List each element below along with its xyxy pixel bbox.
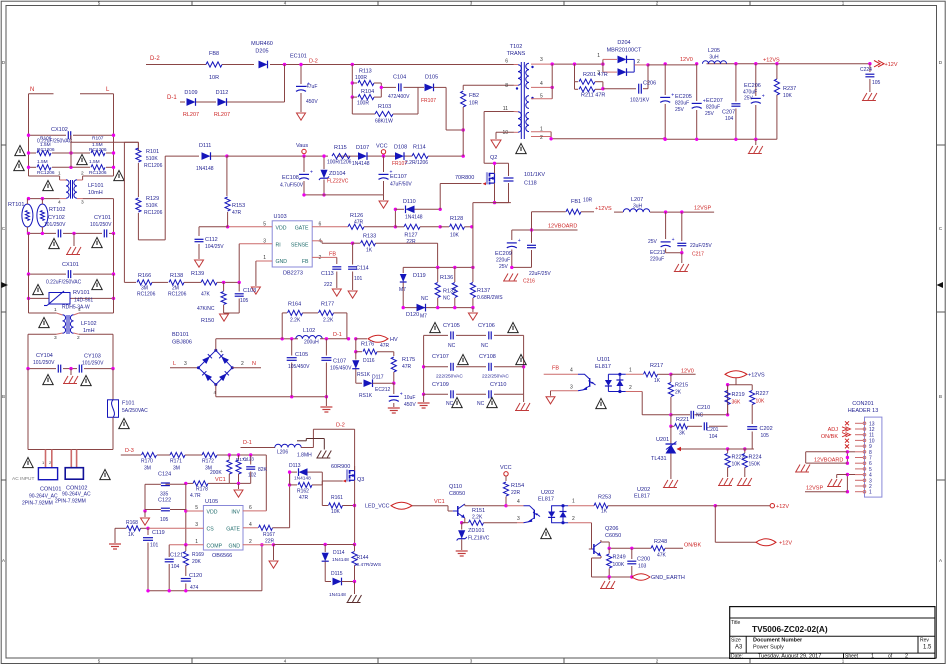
svg-text:ZD104: ZD104 <box>329 171 346 177</box>
svg-text:C201: C201 <box>707 427 719 433</box>
warning triangle CY107 <box>458 354 468 364</box>
wire D-1 diode row <box>180 101 185 103</box>
svg-text:GATE: GATE <box>226 527 240 533</box>
svg-text:222/250VAC: 222/250VAC <box>436 374 463 380</box>
svg-text:C217: C217 <box>692 252 704 258</box>
svg-text:M7: M7 <box>420 314 427 320</box>
svg-text:C224: C224 <box>860 67 872 73</box>
no-connect x pin13 <box>845 421 849 425</box>
svg-text:47K: 47K <box>201 292 211 298</box>
resistor R115 <box>332 154 350 159</box>
wire to D111 anode <box>165 155 199 157</box>
power arrow +12V top <box>874 61 884 67</box>
resistor R126 <box>348 224 364 229</box>
diode D205 MUR460 <box>259 61 268 69</box>
svg-text:102: 102 <box>248 473 257 479</box>
svg-text:12V0: 12V0 <box>681 369 694 375</box>
warning triangle U202 <box>541 528 551 538</box>
warning triangle 9 <box>92 279 102 289</box>
svg-text:3: 3 <box>81 200 84 206</box>
wire vdd column <box>185 483 187 544</box>
svg-text:105: 105 <box>160 517 169 523</box>
svg-text:474: 474 <box>190 585 199 591</box>
wire AC bottom row <box>28 449 113 451</box>
wire L top <box>80 93 114 95</box>
svg-text:100R: 100R <box>355 75 367 81</box>
svg-text:25V: 25V <box>675 107 685 113</box>
zener ZD101 <box>458 530 465 538</box>
wire R150 C103 join <box>224 312 240 314</box>
svg-text:105/450V: 105/450V <box>288 364 310 370</box>
diode D109 <box>187 98 196 106</box>
resistor R138 <box>160 281 168 283</box>
svg-text:R138: R138 <box>170 273 183 279</box>
svg-text:25V: 25V <box>648 239 658 245</box>
ground earth CY102 CY101 <box>73 233 75 246</box>
ground R224 <box>738 478 742 485</box>
svg-text:3: 3 <box>195 522 198 528</box>
svg-text:EC213: EC213 <box>650 250 666 256</box>
wire comp gnd row <box>148 590 262 592</box>
wire u202 pin4 <box>506 505 524 507</box>
wire left rail to LF102 <box>28 274 30 298</box>
svg-text:2K: 2K <box>675 390 682 396</box>
power symbol VCC <box>381 150 385 154</box>
svg-text:22R: 22R <box>406 239 416 245</box>
capacitor C224 <box>869 64 871 72</box>
ground C114 <box>348 291 357 298</box>
svg-text:0.68R/2WS: 0.68R/2WS <box>477 295 503 301</box>
svg-text:R164: R164 <box>288 302 301 308</box>
ground C224 <box>863 93 867 100</box>
svg-text:GND_EARTH: GND_EARTH <box>651 575 685 581</box>
wire SENSE pin4 <box>312 240 322 242</box>
svg-text:NC: NC <box>448 343 456 349</box>
svg-text:U103: U103 <box>274 214 287 220</box>
svg-text:R169: R169 <box>192 552 204 558</box>
svg-text:1.5M: 1.5M <box>89 159 100 165</box>
svg-text:R127: R127 <box>404 233 417 239</box>
inductor L207 <box>614 211 623 213</box>
warning triangle 6 <box>49 238 59 248</box>
ground R223 <box>719 478 723 485</box>
svg-text:D119: D119 <box>413 273 426 279</box>
resistor R176 hv <box>356 351 362 353</box>
svg-text:NC: NC <box>477 401 485 407</box>
svg-text:VDD: VDD <box>207 510 218 516</box>
svg-text:1: 1 <box>54 307 57 313</box>
svg-text:1: 1 <box>629 368 632 374</box>
capacitor CY106 <box>488 331 490 339</box>
svg-text:2: 2 <box>572 516 575 522</box>
svg-text:GATE: GATE <box>295 226 309 232</box>
wire to startup resistors <box>71 141 138 143</box>
svg-text:C207: C207 <box>722 110 735 116</box>
svg-text:60R900: 60R900 <box>331 464 350 470</box>
svg-text:3uH: 3uH <box>633 204 643 210</box>
capacitor EC101 <box>300 65 302 85</box>
resistor R136 sense <box>437 267 439 282</box>
capacitor EC206 <box>755 64 757 96</box>
svg-text:10R: 10R <box>469 101 479 107</box>
diode D105 <box>425 84 434 92</box>
svg-text:C202: C202 <box>760 426 773 432</box>
svg-text:M7: M7 <box>399 287 406 293</box>
wire collector node <box>601 541 609 543</box>
svg-text:HEADER 13: HEADER 13 <box>848 408 879 414</box>
capacitor EC213 <box>665 212 667 239</box>
svg-text:+: + <box>518 238 521 244</box>
capacitor CX102 <box>29 134 67 136</box>
ground D115 R144 <box>354 582 356 595</box>
svg-text:101: 101 <box>150 543 159 549</box>
fuse F101 <box>108 400 119 418</box>
svg-text:CS: CS <box>207 527 215 533</box>
svg-text:3: 3 <box>517 516 520 522</box>
svg-text:Sheet: Sheet <box>845 654 859 660</box>
capacitor CY102 <box>57 229 59 237</box>
ground CY109 left <box>423 394 425 402</box>
svg-text:VC1: VC1 <box>215 477 226 483</box>
svg-text:101/250V: 101/250V <box>33 360 55 366</box>
svg-text:R136: R136 <box>440 275 453 281</box>
wire source to sense <box>472 227 474 268</box>
svg-text:EL817: EL817 <box>634 494 650 500</box>
resistor R105 row1 left <box>29 152 37 154</box>
wire below LF102 <box>28 333 56 335</box>
svg-text:D-1: D-1 <box>243 440 252 446</box>
wire r221 row <box>670 415 672 427</box>
svg-text:+12VS: +12VS <box>763 58 780 64</box>
svg-text:10: 10 <box>502 130 508 136</box>
ground U103 gnd <box>251 287 260 294</box>
wire q206 base <box>591 543 593 549</box>
svg-text:SENSE: SENSE <box>291 243 309 249</box>
capacitor EC209 <box>511 230 513 240</box>
capacitor EC107 <box>379 173 389 175</box>
svg-text:3: 3 <box>570 385 573 391</box>
resistor R114 <box>412 154 428 159</box>
svg-text:+12V: +12V <box>885 62 898 68</box>
capacitor CY108 <box>488 363 490 371</box>
svg-text:2PIN-7.92MM: 2PIN-7.92MM <box>22 501 53 507</box>
svg-text:FB2: FB2 <box>469 93 479 99</box>
warning triangle CY109 <box>452 397 462 407</box>
svg-text:2: 2 <box>81 171 84 177</box>
capacitor C206 <box>603 88 636 90</box>
power symbol Vaus <box>302 149 306 153</box>
svg-text:EC107: EC107 <box>390 174 407 180</box>
wire sense top row <box>403 266 473 268</box>
capacitor C207 <box>735 64 737 102</box>
svg-text:47K: 47K <box>657 553 667 559</box>
wire 12V0 rail <box>648 64 665 66</box>
wire EC213 gnd row <box>666 252 682 254</box>
svg-text:R133: R133 <box>363 234 376 240</box>
capacitor C105 <box>291 339 293 356</box>
capacitor CY105 <box>424 334 448 336</box>
svg-text:Q206: Q206 <box>605 526 618 532</box>
fold marks <box>1 282 8 288</box>
resistor R172 <box>202 452 217 457</box>
svg-text:100K: 100K <box>613 562 625 568</box>
svg-text:+: + <box>220 349 223 355</box>
svg-text:0.47R/2WS: 0.47R/2WS <box>357 562 382 568</box>
svg-text:EC108: EC108 <box>282 175 299 181</box>
svg-text:FB: FB <box>552 366 559 372</box>
transformer LF101 <box>29 175 60 177</box>
wire LF101 pin3 down <box>83 198 114 200</box>
svg-text:R211 47R: R211 47R <box>581 93 605 99</box>
wire gnd_earth row <box>592 576 632 578</box>
svg-text:L: L <box>173 361 176 367</box>
svg-text:C123: C123 <box>243 457 254 462</box>
svg-text:510K: 510K <box>146 156 158 162</box>
warning triangle T102 <box>516 143 526 153</box>
ground earth CY103 <box>70 369 72 375</box>
svg-text:C105: C105 <box>295 352 308 358</box>
svg-text:R171: R171 <box>170 459 182 465</box>
wire u202 pin3 <box>517 522 524 524</box>
svg-text:LED_VCC: LED_VCC <box>365 504 390 510</box>
capacitor C217 <box>681 212 683 241</box>
svg-text:D109: D109 <box>184 90 197 96</box>
svg-text:4: 4 <box>249 522 252 528</box>
svg-text:LF102: LF102 <box>81 321 97 327</box>
svg-text:RDH5-3A-W: RDH5-3A-W <box>62 305 90 311</box>
svg-text:3uH: 3uH <box>709 55 719 61</box>
svg-text:4: 4 <box>517 499 520 505</box>
resistor R169 <box>185 545 187 551</box>
capacitor CY110 <box>488 390 490 398</box>
svg-text:1N4148: 1N4148 <box>196 166 214 172</box>
net oval HV <box>368 335 388 342</box>
svg-text:1N4148: 1N4148 <box>332 557 349 563</box>
wire left rail upper <box>28 94 30 176</box>
svg-text:Q2: Q2 <box>490 155 497 161</box>
svg-text:TV5006-ZC02-02(A): TV5006-ZC02-02(A) <box>752 624 828 634</box>
svg-text:C103: C103 <box>243 288 256 294</box>
svg-text:R132: R132 <box>443 289 456 295</box>
svg-text:10K: 10K <box>331 509 341 515</box>
svg-text:R237: R237 <box>783 86 796 92</box>
svg-text:104: 104 <box>709 434 718 440</box>
svg-text:N: N <box>252 361 256 367</box>
svg-text:RL207: RL207 <box>214 112 230 118</box>
capacitor C122 <box>161 507 170 509</box>
diode D107 <box>358 152 367 160</box>
svg-text:C113: C113 <box>321 271 334 277</box>
svg-text:EC206: EC206 <box>744 83 761 89</box>
resistor R201 parallel <box>574 64 576 82</box>
resistor R237 <box>776 64 778 79</box>
wire D-1 to L206 <box>241 447 276 449</box>
svg-text:R144: R144 <box>357 555 369 561</box>
svg-text:2: 2 <box>241 361 244 367</box>
power triangle vc1 <box>238 483 240 489</box>
svg-text:68K/1W: 68K/1W <box>375 119 393 125</box>
svg-text:R221: R221 <box>676 417 689 423</box>
svg-text:CX102: CX102 <box>51 127 68 133</box>
ic U105 OB6566 box <box>203 506 243 551</box>
wire startup to D111 <box>137 213 139 240</box>
svg-text:+: + <box>310 170 313 176</box>
wire secondary pin2 <box>531 136 551 138</box>
diode D111 <box>202 152 211 160</box>
resistor R162 <box>290 484 297 486</box>
svg-text:R104: R104 <box>361 89 374 95</box>
svg-text:10R: 10R <box>209 75 219 81</box>
wire LF101 pin4 to thermistors <box>27 198 59 200</box>
svg-text:R101: R101 <box>146 149 159 155</box>
svg-text:EC101: EC101 <box>290 54 307 60</box>
wire u202 pin2 <box>568 522 591 524</box>
svg-text:2: 2 <box>905 654 908 660</box>
wire tl431 ref <box>677 448 728 450</box>
ground con201 lower <box>828 479 832 486</box>
svg-text:Vaus: Vaus <box>296 143 308 149</box>
connector CON101 <box>45 450 47 468</box>
wire U105 gnd pin2 <box>243 544 274 546</box>
svg-text:2: 2 <box>629 385 632 391</box>
svg-text:INV: INV <box>231 510 240 516</box>
resistor R167 <box>259 525 273 530</box>
opto U202 led pair <box>551 505 568 507</box>
warning triangle 15 <box>100 469 110 479</box>
svg-text:F101: F101 <box>122 401 135 407</box>
varistor RV101 <box>29 297 50 299</box>
ground EC212 <box>388 407 400 409</box>
svg-text:1K: 1K <box>601 509 608 515</box>
svg-text:14D-561: 14D-561 <box>74 298 93 304</box>
warning triangle 1 <box>15 145 25 155</box>
svg-text:R106: R106 <box>40 136 52 142</box>
wire +12vs drop <box>735 378 737 385</box>
svg-text:3: 3 <box>540 57 543 63</box>
ferrite bead FB8 <box>206 62 222 67</box>
wire gate to mosfet <box>439 184 441 210</box>
svg-text:D117: D117 <box>372 375 384 381</box>
svg-text:1.5: 1.5 <box>923 645 932 651</box>
wire con201 pins 8-7-6 <box>847 451 855 453</box>
svg-text:FB8: FB8 <box>209 51 219 57</box>
resistor R223 <box>727 449 729 453</box>
resistor R101 startup <box>137 142 139 147</box>
wire opto pin4 <box>544 373 578 375</box>
svg-text:820uF: 820uF <box>675 101 689 107</box>
svg-text:RC1206: RC1206 <box>144 163 163 169</box>
capacitor CY104 <box>57 365 59 373</box>
svg-text:RC1206: RC1206 <box>89 147 107 153</box>
capacitor CY103 <box>78 365 80 373</box>
svg-text:FB1: FB1 <box>571 199 581 205</box>
resistor R106 row2 left <box>29 166 37 168</box>
svg-text:D-1: D-1 <box>167 95 177 101</box>
power circle +12V out <box>715 505 770 507</box>
svg-text:A: A <box>939 558 942 563</box>
svg-text:U202: U202 <box>637 487 650 493</box>
svg-text:RC1206: RC1206 <box>137 292 156 298</box>
svg-text:RC1206: RC1206 <box>37 170 55 176</box>
resistor 200K <box>228 455 230 460</box>
svg-text:2: 2 <box>540 135 543 141</box>
ground R150 <box>220 314 229 321</box>
svg-text:Q3: Q3 <box>357 477 364 483</box>
resistor R104 <box>352 96 357 98</box>
svg-text:L205: L205 <box>708 48 720 54</box>
svg-text:RT102: RT102 <box>49 207 65 213</box>
svg-text:101/1KV: 101/1KV <box>524 172 545 178</box>
wire Q2 drain <box>483 112 485 164</box>
wire opto pin1 <box>626 373 643 375</box>
svg-text:1: 1 <box>597 53 600 59</box>
svg-text:4: 4 <box>570 368 573 374</box>
svg-text:Date:: Date: <box>731 654 743 660</box>
svg-text:R178: R178 <box>196 487 208 493</box>
wire EC209 gnd <box>512 266 532 268</box>
bridge rectifier BD101 <box>198 350 232 384</box>
svg-text:2.2K: 2.2K <box>323 318 334 324</box>
capacitor CY107 <box>424 366 448 368</box>
svg-text:1K: 1K <box>366 248 373 254</box>
svg-text:2.2K: 2.2K <box>290 318 301 324</box>
resistor R153 <box>226 156 228 196</box>
svg-text:4: 4 <box>319 239 322 245</box>
wire U105 comp pin1 <box>169 544 203 546</box>
no-connect x pin9 <box>845 444 849 448</box>
svg-text:RT101: RT101 <box>8 202 24 208</box>
wire con201 pins 4-3-2-1 <box>847 474 855 476</box>
wire gnd riser <box>261 545 263 591</box>
ferrite bead FB2 <box>462 85 464 90</box>
svg-text:RC1206: RC1206 <box>37 147 55 153</box>
svg-text:EL817: EL817 <box>538 497 554 503</box>
transformer T102 primary winding bottom <box>484 111 514 113</box>
svg-text:104/25V: 104/25V <box>205 244 224 250</box>
wire GND pin1 <box>256 260 272 262</box>
svg-text:NC: NC <box>443 296 451 302</box>
capacitor C120 <box>181 578 191 580</box>
svg-text:U202: U202 <box>541 490 554 496</box>
svg-text:R162: R162 <box>297 489 309 495</box>
svg-text:Title: Title <box>731 620 740 626</box>
power triangle c124 <box>144 511 146 517</box>
svg-text:R139: R139 <box>191 271 204 277</box>
svg-text:D120: D120 <box>406 312 419 318</box>
diode D114 <box>324 545 326 553</box>
svg-text:103: 103 <box>638 564 647 570</box>
svg-text:100R/1206: 100R/1206 <box>327 160 352 166</box>
svg-text:C122: C122 <box>158 498 171 504</box>
svg-text:CY107: CY107 <box>432 354 449 360</box>
wire q206 emitter <box>600 556 602 558</box>
svg-text:5: 5 <box>195 505 198 511</box>
wire 12vsp pin1 <box>805 491 847 493</box>
wire q110 collector <box>464 505 466 506</box>
svg-text:2: 2 <box>319 255 322 261</box>
wire R101-R129 <box>137 163 139 197</box>
svg-text:CY101: CY101 <box>94 215 111 221</box>
svg-text:TL431: TL431 <box>651 456 667 462</box>
svg-text:82K: 82K <box>258 467 268 473</box>
ground R168 <box>114 528 116 543</box>
svg-text:R253: R253 <box>598 495 611 501</box>
wire HV node <box>356 338 367 340</box>
svg-text:101: 101 <box>354 276 363 282</box>
resistor R154 <box>505 476 507 481</box>
wire secondary return row <box>551 138 665 140</box>
wire bridge top to L102 row <box>215 339 217 351</box>
